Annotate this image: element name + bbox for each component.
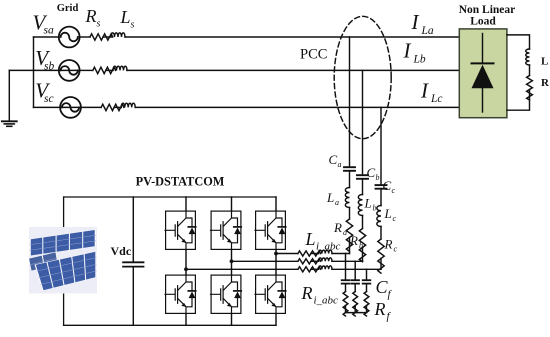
non linear load box (459, 29, 507, 118)
wire Vdc branch bottom (132, 268, 134, 326)
wire PCC drop c (380, 107, 382, 184)
svg-text:L: L (541, 56, 548, 68)
PCC dashed ellipse (334, 16, 391, 138)
label ILc (420, 78, 443, 105)
wire bus to Vsa (34, 36, 59, 38)
svg-text:R: R (541, 77, 550, 89)
svg-text:C: C (367, 165, 376, 180)
wire Rc to line3 (380, 259, 382, 270)
voltage source Vsb (59, 60, 80, 81)
wire Cf drop 1 (345, 254, 347, 280)
svg-text:c: c (392, 186, 396, 195)
resistor R load (527, 76, 533, 101)
node leg2 midpoint (230, 259, 234, 263)
label ILb (403, 39, 426, 66)
transistor IGBT S5 (bottom row) (211, 275, 242, 315)
wire leg 1 bottom (185, 314, 187, 325)
svg-text:L: L (120, 7, 131, 27)
resistor Rf2 (353, 292, 358, 317)
resistor Ri phase 1 (298, 251, 321, 256)
label Vsb (35, 46, 54, 72)
inductor Ls phase b (113, 66, 127, 70)
wire Rf3 bottom (366, 306, 368, 313)
wire left bus (33, 37, 35, 107)
wire phase c: Rs to Ls (114, 106, 121, 108)
label Cb (367, 165, 380, 182)
wire PV left leg (63, 197, 65, 325)
wire Ca to La (349, 172, 351, 188)
transistor IGBT S4 (bottom row) (165, 275, 196, 315)
wire Cf1 to Rf1 (345, 285, 347, 292)
wire line 2 mid (311, 260, 319, 262)
svg-text:I: I (403, 39, 412, 63)
wire filter common tie (346, 312, 367, 314)
wire inverter line 1 left (276, 253, 298, 255)
inductor Ls phase a (111, 33, 125, 37)
svg-text:R: R (349, 233, 358, 248)
transistor IGBT S2 (top row) (211, 211, 242, 251)
svg-text:R: R (85, 6, 97, 26)
wire leg 1 top (185, 197, 187, 211)
svg-text:b: b (359, 241, 363, 250)
svg-text:i_abc: i_abc (316, 241, 341, 253)
label Vsc (35, 79, 53, 105)
wire Rf1 bottom (345, 306, 347, 313)
wire DC top rail (64, 196, 276, 198)
wire phase b to load (127, 69, 459, 71)
wire line 3 mid (311, 268, 319, 270)
wire inverter line 3 left (186, 268, 298, 270)
wire line 1 right (332, 253, 350, 255)
svg-text:i_abc: i_abc (314, 295, 339, 307)
wire phase b: source to Rs (80, 69, 93, 71)
svg-text:s: s (97, 18, 101, 29)
resistor Rs phase b (93, 67, 116, 73)
label Rs (85, 6, 101, 29)
wire leg 3 middle (275, 250, 277, 275)
label Ri_abc (301, 283, 339, 307)
svg-text:a: a (335, 198, 339, 207)
wire phase a: Rs to Ls (103, 36, 111, 38)
wire leg 1 middle (185, 250, 187, 275)
label Lb (364, 196, 377, 213)
svg-text:Lc: Lc (430, 93, 443, 105)
wire La to Ra (349, 208, 351, 220)
svg-text:I: I (420, 78, 429, 102)
svg-text:Load: Load (470, 16, 496, 28)
wire phase a to load (125, 36, 459, 38)
svg-text:PCC: PCC (300, 47, 327, 63)
svg-text:a: a (338, 160, 342, 169)
label Rc (384, 237, 398, 254)
diode D1 in load (472, 34, 494, 113)
svg-text:b: b (373, 203, 377, 212)
inductor Lc (377, 206, 381, 227)
wire Rb to line2 (362, 248, 364, 262)
label Ca (329, 152, 342, 169)
svg-text:sb: sb (44, 60, 54, 72)
wire Cf3 to Rf3 (366, 285, 368, 292)
voltage source Vsc (60, 97, 81, 118)
svg-text:Grid: Grid (57, 3, 79, 14)
resistor Ri phase 3 (298, 267, 321, 272)
wire leg 2 top (231, 197, 233, 211)
label Li_abc (305, 229, 341, 253)
label Non Linear Load (459, 4, 516, 28)
resistor Rs phase a (90, 34, 113, 40)
wire ground to bus (9, 69, 33, 71)
label Cf (376, 277, 393, 301)
svg-text:f: f (388, 289, 393, 301)
svg-text:s: s (131, 19, 135, 30)
wire L to R load (529, 65, 531, 76)
wire Ra to line1 (349, 238, 351, 254)
inductor Li phase 3 (319, 266, 333, 269)
svg-text:f: f (387, 311, 392, 323)
node leg3 midpoint (274, 252, 278, 256)
wire Cf2 to Rf2 (354, 285, 356, 292)
capacitor Cc (376, 185, 387, 189)
svg-text:R: R (374, 299, 386, 319)
wire Lc to Rc (380, 227, 382, 240)
svg-text:Vdc: Vdc (111, 244, 132, 258)
label ILa (411, 10, 434, 37)
wire leg 2 bottom (231, 314, 233, 325)
wire load bottom right (507, 90, 530, 111)
inductor L load (526, 49, 530, 65)
wire line 1 mid (311, 253, 319, 255)
capacitor Cf1 (342, 280, 350, 283)
resistor Rc (378, 239, 384, 273)
inductor La (345, 188, 349, 208)
capacitor Vdc (123, 262, 143, 266)
svg-text:L: L (384, 206, 392, 221)
inductor Li phase 1 (319, 250, 333, 253)
wire PCC drop a (349, 37, 351, 166)
capacitor Cf2 (351, 280, 359, 283)
label Ra (333, 220, 347, 237)
inductor Lb (358, 195, 362, 216)
transistor IGBT S3 (top row) (255, 211, 286, 251)
wire Cf drop 3 (366, 269, 368, 279)
svg-text:L: L (326, 190, 334, 205)
inductor Li phase 2 (319, 258, 333, 261)
label Vsa (33, 10, 54, 36)
label Rf (374, 299, 392, 323)
transistor IGBT S6 (bottom row) (255, 275, 286, 315)
wire bus to Vsc left (34, 106, 61, 108)
wire inverter line 2 left (232, 260, 298, 262)
wire phase a: source to Rs (80, 36, 90, 38)
wire Vdc branch top (132, 197, 134, 261)
wire leg 3 top (275, 197, 277, 211)
wire leg 2 middle (231, 250, 233, 275)
svg-text:c: c (393, 214, 397, 223)
svg-text:sc: sc (44, 93, 54, 105)
node leg1 midpoint (184, 267, 188, 271)
capacitor Ca (344, 167, 355, 171)
svg-text:b: b (376, 173, 380, 182)
svg-text:a: a (343, 228, 347, 237)
wire phase c to load (135, 106, 459, 108)
label Lc (384, 206, 397, 223)
svg-text:Non Linear: Non Linear (459, 4, 516, 16)
wire load top right (507, 35, 530, 49)
resistor Rs phase c (101, 104, 124, 110)
resistor Ra (346, 219, 352, 251)
wire Cf drop 2 (354, 261, 356, 279)
wire Cb to Lb (362, 180, 364, 195)
wire Rf2 bottom (354, 306, 356, 313)
capacitor Cb (357, 175, 368, 179)
svg-text:La: La (421, 25, 434, 37)
inductor Ls phase c (121, 103, 135, 107)
wire line 3 right (332, 268, 381, 270)
svg-text:I: I (411, 10, 420, 34)
wire Cc to Lc (380, 190, 382, 206)
wire phase c: source to Rs (81, 106, 101, 108)
svg-text:sa: sa (44, 25, 54, 37)
voltage source Vsa (59, 27, 80, 48)
PV solar panel array (29, 227, 98, 294)
svg-text:R: R (384, 237, 393, 252)
transistor IGBT S1 (top row) (165, 211, 196, 251)
label Rb (349, 233, 363, 250)
resistor Ri phase 2 (298, 259, 321, 264)
svg-text:L: L (305, 229, 316, 249)
wire phase b: Rs to Ls (106, 69, 113, 71)
svg-text:L: L (364, 196, 372, 211)
svg-text:C: C (329, 152, 338, 167)
wire DC bottom rail (64, 324, 276, 326)
wire leg 3 bottom (275, 314, 277, 325)
label La (326, 190, 339, 207)
resistor Rb (359, 229, 365, 262)
label Ls (120, 7, 135, 30)
svg-text:R: R (333, 220, 342, 235)
wire Lb to Rb (362, 216, 364, 229)
wire bus to Vsb left (34, 69, 59, 71)
svg-text:Lb: Lb (413, 53, 426, 65)
wire PCC drop b (362, 70, 364, 174)
resistor Rf1 (343, 292, 348, 317)
resistor Rf3 (364, 292, 369, 317)
svg-text:c: c (394, 244, 398, 253)
capacitor Cf3 (363, 280, 371, 283)
svg-text:R: R (301, 283, 313, 303)
ground (2, 70, 17, 126)
label Cc (383, 178, 396, 195)
svg-text:PV-DSTATCOM: PV-DSTATCOM (136, 175, 225, 189)
wire line 2 right (332, 260, 363, 262)
svg-text:C: C (383, 178, 392, 193)
